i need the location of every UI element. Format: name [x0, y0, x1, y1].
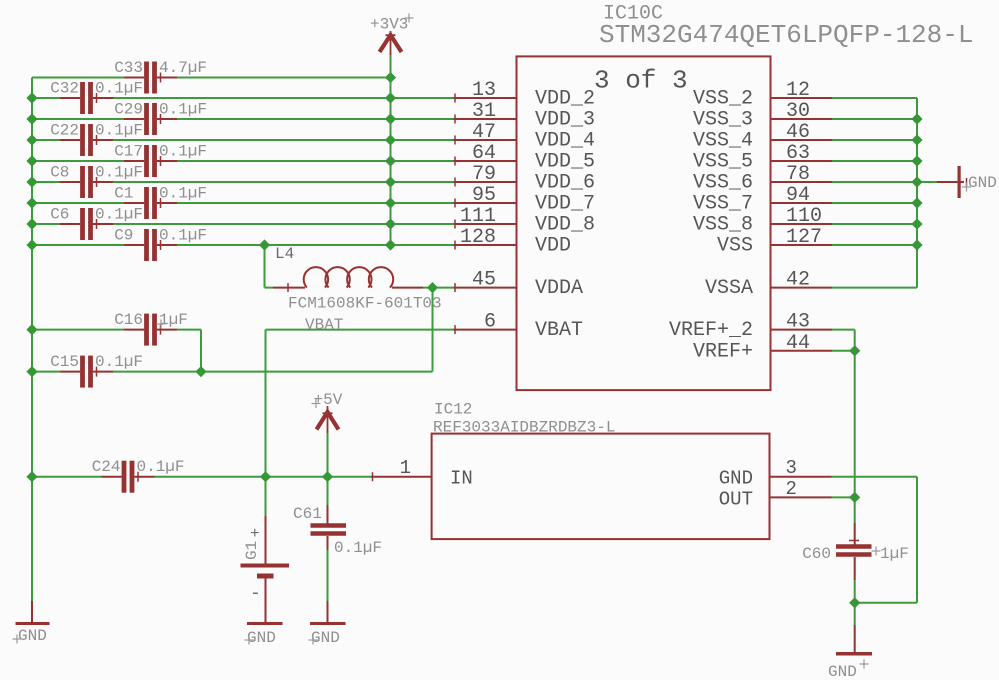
svg-text:VSS_4: VSS_4 [693, 130, 753, 153]
svg-text:46: 46 [786, 121, 810, 144]
svg-text:VDD_2: VDD_2 [535, 88, 595, 111]
svg-text:VREF+: VREF+ [693, 340, 753, 363]
svg-text:C6: C6 [50, 206, 69, 224]
svg-text:REF3033AIDBZRDBZ3-L: REF3033AIDBZRDBZ3-L [433, 419, 615, 437]
svg-text:+5V: +5V [314, 391, 343, 409]
svg-text:0.1µF: 0.1µF [159, 227, 207, 245]
svg-text:VSS_8: VSS_8 [693, 214, 753, 237]
svg-text:78: 78 [786, 163, 810, 186]
svg-text:G1: G1 [243, 541, 261, 560]
svg-text:0.1µF: 0.1µF [159, 101, 207, 119]
svg-text:0.1µF: 0.1µF [137, 458, 185, 476]
svg-text:128: 128 [460, 226, 496, 249]
svg-text:VDD_4: VDD_4 [535, 130, 595, 153]
svg-text:L4: L4 [275, 245, 294, 263]
svg-text:VREF+_2: VREF+_2 [669, 319, 753, 342]
svg-text:127: 127 [786, 226, 822, 249]
svg-text:110: 110 [786, 205, 822, 228]
svg-text:FCM1608KF-601T03: FCM1608KF-601T03 [288, 295, 442, 313]
svg-text:IC12: IC12 [434, 401, 472, 419]
svg-text:0.1µF: 0.1µF [95, 353, 143, 371]
svg-text:VDD_7: VDD_7 [535, 193, 595, 216]
svg-text:0.1µF: 0.1µF [95, 122, 143, 140]
svg-text:+3V3: +3V3 [370, 16, 408, 34]
svg-text:64: 64 [472, 142, 496, 165]
svg-text:94: 94 [786, 184, 810, 207]
svg-text:OUT: OUT [719, 488, 753, 510]
svg-text:VSSA: VSSA [705, 277, 753, 300]
svg-text:4.7µF: 4.7µF [159, 59, 207, 77]
svg-text:47: 47 [472, 121, 496, 144]
svg-text:GND: GND [968, 174, 997, 192]
svg-text:0.1µF: 0.1µF [95, 206, 143, 224]
svg-text:30: 30 [786, 100, 810, 123]
svg-text:VBAT: VBAT [305, 316, 343, 334]
svg-text:12: 12 [786, 79, 810, 102]
svg-text:79: 79 [472, 163, 496, 186]
svg-text:C60: C60 [802, 545, 831, 563]
svg-text:0.1µF: 0.1µF [159, 143, 207, 161]
svg-text:45: 45 [472, 269, 496, 292]
svg-text:C61: C61 [293, 505, 322, 523]
svg-text:IN: IN [450, 468, 473, 490]
svg-text:STM32G474QET6LPQFP-128-L: STM32G474QET6LPQFP-128-L [599, 20, 973, 50]
svg-text:C16: C16 [114, 311, 143, 329]
svg-text:3 of 3: 3 of 3 [594, 66, 688, 96]
svg-text:C33: C33 [114, 59, 143, 77]
svg-text:42: 42 [786, 269, 810, 292]
svg-text:1µF: 1µF [159, 311, 188, 329]
svg-text:GND: GND [311, 629, 340, 647]
svg-text:C9: C9 [114, 227, 133, 245]
svg-text:13: 13 [472, 79, 496, 102]
svg-text:31: 31 [472, 100, 496, 123]
svg-text:VSS_3: VSS_3 [693, 109, 753, 132]
svg-text:2: 2 [786, 478, 797, 500]
svg-text:6: 6 [484, 311, 496, 334]
svg-text:111: 111 [460, 205, 496, 228]
svg-text:C8: C8 [50, 164, 69, 182]
svg-text:44: 44 [786, 332, 810, 355]
svg-text:VDD: VDD [535, 235, 571, 258]
svg-text:-: - [250, 584, 261, 604]
svg-text:C29: C29 [114, 101, 143, 119]
svg-text:VDD_3: VDD_3 [535, 109, 595, 132]
svg-text:1µF: 1µF [880, 545, 909, 563]
svg-text:3: 3 [786, 457, 797, 479]
svg-text:0.1µF: 0.1µF [159, 185, 207, 203]
svg-text:VBAT: VBAT [535, 319, 583, 342]
svg-text:C15: C15 [50, 353, 79, 371]
svg-text:0.1µF: 0.1µF [95, 164, 143, 182]
svg-text:C22: C22 [50, 122, 79, 140]
svg-text:GND: GND [18, 627, 47, 645]
svg-text:+: + [250, 525, 260, 543]
svg-text:VDD_8: VDD_8 [535, 214, 595, 237]
svg-text:63: 63 [786, 142, 810, 165]
svg-text:VDD_5: VDD_5 [535, 151, 595, 174]
svg-text:GND: GND [247, 629, 276, 647]
svg-text:95: 95 [472, 184, 496, 207]
svg-text:VDDA: VDDA [535, 277, 583, 300]
svg-text:VSS_2: VSS_2 [693, 88, 753, 111]
svg-text:VSS_7: VSS_7 [693, 193, 753, 216]
svg-text:VSS_6: VSS_6 [693, 172, 753, 195]
svg-text:C1: C1 [114, 185, 133, 203]
svg-text:VSS_5: VSS_5 [693, 151, 753, 174]
svg-text:C32: C32 [50, 80, 79, 98]
svg-text:C24: C24 [92, 458, 121, 476]
svg-text:C17: C17 [114, 143, 143, 161]
svg-text:0.1µF: 0.1µF [95, 80, 143, 98]
svg-text:GND: GND [828, 663, 857, 680]
svg-text:VDD_6: VDD_6 [535, 172, 595, 195]
svg-text:VSS: VSS [717, 235, 753, 258]
svg-text:43: 43 [786, 311, 810, 334]
svg-text:1: 1 [400, 457, 411, 479]
svg-text:GND: GND [719, 468, 753, 490]
svg-text:0.1µF: 0.1µF [334, 539, 382, 557]
